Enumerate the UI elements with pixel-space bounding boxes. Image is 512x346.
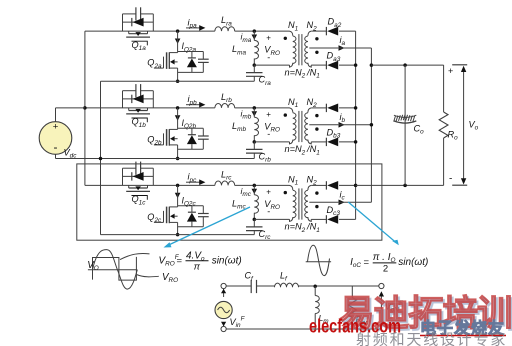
capacitor C_o [404, 65, 406, 185]
snubber capacitor of Q1b [122, 91, 124, 108]
capacitor C_rb [253, 142, 255, 150]
node phase-a resonant node [253, 29, 256, 32]
transformer Tc primary N1 [290, 185, 293, 190]
callout arrow to I_oC formula [348, 202, 396, 243]
snubber capacitor of Q1a [122, 14, 124, 31]
current arrow i_c [339, 200, 345, 206]
svg-text:+: + [448, 66, 453, 76]
wire eq top mid [257, 285, 275, 287]
wire phase-c lower link [254, 218, 289, 220]
capacitor C_rc [253, 219, 255, 227]
inductor L_rc [215, 181, 235, 185]
current arrow i_b [339, 122, 345, 128]
svg-text:射频和天线设计专家: 射频和天线设计专家 [356, 332, 507, 346]
leader to V_RO formula [120, 253, 150, 259]
inductor L_f [275, 283, 299, 287]
current arrow I_Q2a [175, 39, 181, 44]
inductor L_m shunt [314, 286, 316, 295]
snubber capacitor of Q2b [202, 128, 204, 136]
waveform sketch sine [93, 250, 138, 289]
transformer Tc core [298, 188, 300, 219]
node phase-a below L_m [253, 63, 256, 67]
capacitor C_ra [253, 65, 255, 73]
terminal V_o plus [452, 64, 467, 66]
node eq junction [313, 284, 317, 288]
source V_in fundamental [215, 301, 232, 318]
waveform sketch square wave [93, 257, 137, 280]
snubber capacitor of Q2c [202, 206, 204, 214]
diode D_c2 [311, 184, 326, 186]
node return at negative rail [99, 157, 103, 161]
diode D_b2 [311, 107, 326, 109]
transistor Q1a [128, 31, 130, 34]
transformer Ta primary N1 [290, 31, 293, 36]
current arrow i_pc [186, 181, 200, 183]
node bus-A output negative [354, 184, 358, 188]
node phase-a half-bridge midpoint [176, 29, 180, 32]
current arrow i_a [339, 45, 345, 51]
svg-text:=: = [177, 256, 183, 267]
node phase-c half-bridge midpoint [176, 184, 180, 188]
transistor Q2c [177, 185, 179, 207]
node phase-b below L_m [253, 140, 256, 144]
node DC bus phase-b tap [83, 106, 87, 110]
diode D_a3 [311, 64, 326, 66]
wire eq top right [299, 285, 379, 287]
transistor Q1b [128, 108, 130, 111]
polarity dot N1 b [284, 113, 287, 116]
polarity dot N1 a [284, 37, 287, 40]
svg-text:+: + [266, 188, 271, 197]
inductor L_mc [253, 185, 255, 194]
transistor Q2b [177, 108, 179, 129]
svg-text:+: + [53, 122, 59, 133]
polarity dots N2 a [315, 37, 318, 40]
wire output negative rail [356, 184, 444, 186]
antiparallel diode of Q1a [123, 21, 154, 23]
diode D_b3 [311, 141, 326, 143]
waveform sketch V_O axis [88, 269, 137, 271]
svg-text:sin(ωt): sin(ωt) [212, 256, 242, 267]
antiparallel diode of Q1b [123, 98, 154, 100]
svg-text:-: - [267, 52, 270, 62]
svg-text:+: + [266, 110, 271, 119]
transistor Q1c [128, 185, 130, 188]
wire phase-b lower link [254, 141, 289, 143]
transistor Q2a [177, 31, 179, 52]
transformer Tc secondary N2 [308, 185, 311, 190]
svg-text:2: 2 [383, 263, 388, 274]
wire phase-b top rail [85, 107, 215, 109]
node Q2a source [176, 79, 180, 83]
source V_dc [39, 122, 72, 155]
capacitor C_f [250, 280, 252, 293]
node phase-b resonant node [253, 106, 256, 110]
transformer Tb core [298, 111, 300, 142]
body diode of Q2b [178, 127, 204, 129]
terminal input bottom [221, 326, 226, 331]
current arrow i_pa [186, 27, 200, 29]
current arrow I_Q2c [175, 193, 181, 198]
node Q2c source [176, 233, 180, 237]
node Q2b source [176, 157, 180, 161]
callout arrow to V_RO formula [167, 207, 251, 246]
body diode of Q2a [178, 51, 204, 53]
svg-text:-: - [267, 129, 270, 139]
label Q1c with overline [132, 196, 148, 200]
wire phase-a bottom rail [101, 80, 255, 82]
svg-text:sin(ωt): sin(ωt) [398, 257, 428, 268]
voltage arrow V_o^F [380, 295, 382, 325]
svg-text:+: + [266, 33, 271, 42]
terminal input top [221, 283, 226, 288]
antiparallel diode of Q1c [123, 175, 154, 177]
svg-text:-: - [267, 207, 270, 217]
transformer Tb secondary N2 [308, 108, 311, 113]
node bus-A D_b3 [354, 140, 358, 144]
current arrow i_mb [252, 111, 258, 116]
voltage arrow V_o [463, 69, 465, 182]
wire eq bottom [226, 328, 381, 330]
node bus-A D_b2 [354, 106, 358, 110]
polarity dots N2 c [315, 191, 318, 194]
polarity dot N1 c [284, 191, 287, 194]
wire phase-c bottom rail [101, 234, 255, 236]
diode D_c3 [311, 218, 326, 220]
label Q1b with overline [132, 118, 148, 122]
watermark overlay [309, 293, 512, 346]
node bus-B i_b [370, 123, 374, 127]
current arrow i_pb [186, 104, 200, 106]
svg-text:=: = [364, 257, 370, 268]
waveform sine symbol [306, 261, 331, 263]
node C_o bottom [403, 184, 407, 188]
leader to V_RO label [137, 275, 159, 277]
wire eq top left [226, 285, 251, 287]
polarity dots N2 b [315, 114, 318, 117]
node bus-B output positive [370, 63, 374, 67]
label Q1a with overline [132, 41, 148, 45]
wire phase-a top rail [85, 30, 215, 32]
wire output positive rail [371, 64, 443, 66]
box phase-c module [77, 164, 382, 240]
svg-text:π: π [194, 261, 201, 272]
inductor L_mb [253, 108, 255, 117]
inductor L_ma [253, 31, 255, 40]
node bus-A D_a3 [354, 63, 358, 67]
terminal output top [379, 283, 384, 288]
wire DC positive bus [84, 31, 86, 185]
svg-text:-: - [54, 140, 58, 154]
wire phase-b bottom rail [56, 158, 255, 160]
node C_o top [403, 63, 407, 67]
resistor R_ac [351, 286, 353, 298]
snubber capacitor of Q2a [202, 52, 204, 60]
wire phase-a return [100, 81, 102, 234]
terminal V_o minus [452, 184, 467, 186]
wire phase-c top rail [85, 184, 215, 186]
inductor L_rb [215, 104, 235, 108]
diode D_a2 [311, 30, 326, 32]
body diode of Q2c [178, 205, 204, 207]
node phase-c below L_m [253, 218, 256, 222]
node phase-c resonant node [253, 184, 256, 188]
svg-text:-: - [449, 174, 452, 185]
node phase-b half-bridge midpoint [176, 106, 180, 110]
current arrow i_ma [252, 35, 258, 40]
wire phase-a lower link [254, 64, 289, 66]
resistor R_o [443, 65, 445, 112]
wire rectifier bus (diode common) [355, 31, 357, 219]
transformer Tb primary N1 [290, 108, 293, 113]
wire center-tap bus [370, 48, 372, 202]
current arrow i_mc [252, 189, 258, 194]
current arrow I_Q2b [175, 115, 181, 120]
transformer Ta secondary N2 [308, 31, 311, 36]
transformer Ta core [298, 34, 300, 65]
snubber capacitor of Q1c [122, 168, 124, 185]
inductor L_ra [215, 27, 235, 31]
